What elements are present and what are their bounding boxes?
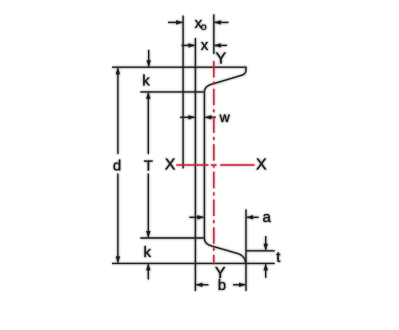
web outer face (194, 67, 196, 263)
svg-text:Y: Y (216, 51, 227, 68)
extension line: shear center (xo) (182, 16, 184, 169)
extension line: web outer face for x dim (194, 38, 196, 67)
svg-text:X: X (256, 157, 267, 174)
svg-text:b: b (218, 277, 226, 294)
svg-text:k: k (144, 244, 152, 261)
svg-text:X: X (165, 157, 176, 174)
svg-text:o: o (201, 21, 207, 33)
dimension a left arrow (189, 215, 204, 219)
dimension b line left arrow (inside, pointing left) (195, 283, 208, 287)
svg-text:t: t (276, 249, 281, 266)
extension line: web outer face bottom (b dim) (194, 263, 196, 291)
extension line: flange tip (a, b dims) (245, 209, 247, 291)
bottom edge extension (for t dimension) (246, 262, 275, 264)
dimension a right arrow (246, 215, 259, 219)
dimension xo left arrow (168, 20, 183, 24)
dimension b line right arrow (inside, pointing right) (233, 283, 246, 287)
dimension x left arrow (182, 43, 196, 47)
svg-text:x: x (201, 37, 209, 54)
dimension xo right arrow (214, 20, 229, 24)
Y-Y centroidal axis (red dash-dot centerline) (213, 61, 215, 264)
dimension w right arrow (204, 115, 215, 119)
svg-text:T: T (144, 157, 153, 174)
X-X centroidal axis (red) (176, 164, 254, 166)
k line top (fillet toe) (140, 91, 203, 93)
svg-text:d: d (113, 158, 121, 175)
svg-text:a: a (263, 209, 272, 226)
k line bottom (fillet toe) (140, 237, 203, 239)
t reference line at flange tip top (246, 250, 275, 252)
svg-text:w: w (219, 109, 231, 125)
dimension d line with arrows (116, 67, 120, 263)
svg-text:k: k (142, 73, 150, 90)
dimension w left arrow (180, 115, 195, 119)
dimension t bottom arrow (264, 263, 268, 277)
dimension T line with arrows (146, 92, 150, 238)
dimension k top arrow (outside, pointing down) (147, 50, 151, 67)
dimension t top arrow (264, 236, 268, 251)
extension line: Y axis top (black) (213, 14, 215, 54)
dimension k bottom arrow (outside, pointing up) (146, 263, 150, 279)
channel section outline (top edge, flange tip, inner slope, fillet, web inner face, bottom mirror) (112, 67, 246, 263)
dimension x right arrow (214, 43, 227, 47)
